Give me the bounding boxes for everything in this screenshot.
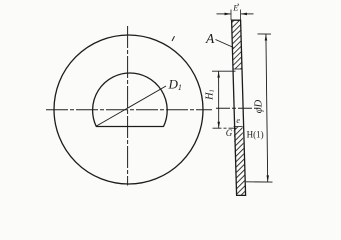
dimension H1: bottom arrow — [218, 122, 221, 128]
dimension H1: vertical line — [218, 71, 220, 128]
dimension E: left arrow — [225, 13, 232, 16]
section hatch upper part — [232, 20, 242, 69]
side view horizontal centerline — [216, 107, 258, 109]
dimension phiD: top extension tick — [258, 33, 272, 35]
svg-text:G: G — [226, 128, 233, 138]
dimension E: left extension line — [230, 10, 232, 21]
tiny tick above E — [238, 4, 239, 6]
dimension H1: top extension line — [212, 70, 236, 72]
dimension phiD: bottom arrow — [267, 175, 270, 182]
dimension phiD: vertical line — [266, 34, 268, 182]
dimension E: left line — [217, 13, 232, 15]
svg-text:A: A — [205, 31, 215, 46]
vertical centerline (front view) — [127, 26, 129, 186]
svg-text:φD: φD — [253, 99, 264, 113]
D-shaped hole outline — [93, 73, 168, 126]
svg-text:H(1): H(1) — [247, 130, 264, 140]
dimension phiD: bottom extension tick — [246, 181, 273, 183]
hole bottom (flat) edge in section — [234, 126, 243, 128]
svg-text:e: e — [236, 116, 240, 125]
diagonal diameter leader for D1 — [96, 86, 166, 126]
outer circle (front view, outer diameter) — [54, 35, 203, 184]
section hatch lower part — [234, 127, 246, 196]
dimension H1: bottom extension line — [213, 127, 237, 129]
dimension E: right arrow — [241, 13, 247, 16]
dimension E: right extension line — [240, 10, 242, 21]
stray tick mark near circle top — [172, 36, 175, 41]
horizontal centerline (front view) — [46, 109, 212, 111]
dimension E: right line — [241, 13, 254, 15]
dimension phiD: top arrow — [265, 34, 268, 41]
dimension H1: top arrow — [217, 71, 220, 77]
hole top edge in section — [233, 68, 242, 70]
leader line from A to section — [216, 40, 234, 48]
section bar outline (side view) — [232, 20, 246, 195]
